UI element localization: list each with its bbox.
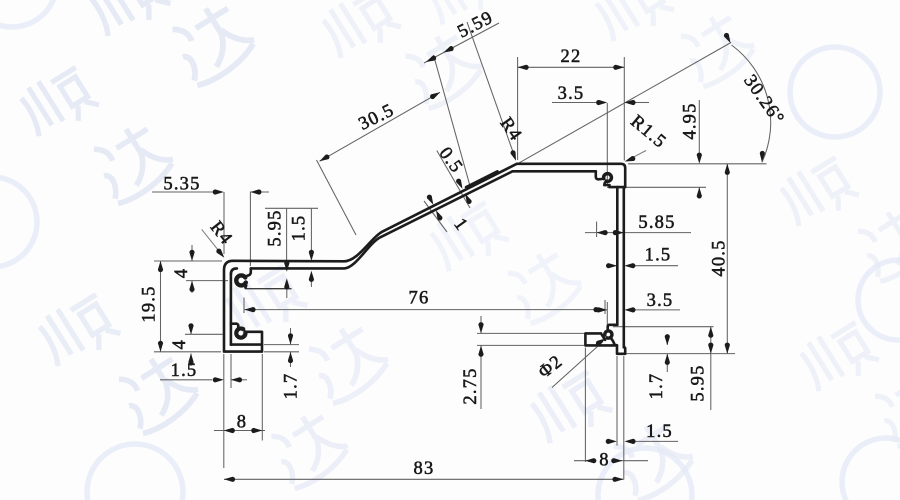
svg-text:76: 76 [409,289,430,309]
svg-text:4: 4 [170,339,190,349]
svg-text:5.85: 5.85 [638,213,675,233]
svg-text:3.5: 3.5 [558,84,585,104]
svg-text:1.5: 1.5 [645,246,672,266]
svg-text:1.7: 1.7 [281,373,301,400]
svg-text:R4: R4 [496,114,526,145]
svg-text:0.5: 0.5 [435,144,467,177]
svg-text:22: 22 [561,47,582,67]
svg-text:1.5: 1.5 [646,422,673,442]
svg-text:19.5: 19.5 [140,285,160,322]
svg-text:1.5: 1.5 [290,215,310,242]
svg-text:3.5: 3.5 [647,291,674,311]
svg-text:4.95: 4.95 [681,102,701,139]
svg-text:1.7: 1.7 [647,373,667,400]
svg-text:5.95: 5.95 [266,209,286,246]
svg-text:2.75: 2.75 [461,367,481,404]
svg-text:40.5: 40.5 [710,239,730,276]
svg-text:5.95: 5.95 [689,364,709,401]
svg-text:8: 8 [237,413,247,433]
svg-text:1.5: 1.5 [171,361,198,381]
svg-text:83: 83 [414,459,435,479]
svg-text:R1.5: R1.5 [626,112,670,153]
svg-text:5.35: 5.35 [163,175,200,195]
svg-text:30.5: 30.5 [356,100,398,134]
svg-text:5.59: 5.59 [455,8,497,43]
svg-text:4: 4 [172,268,192,278]
svg-text:R4: R4 [206,218,237,249]
svg-text:30.26°: 30.26° [739,71,788,129]
svg-text:8: 8 [599,451,609,471]
